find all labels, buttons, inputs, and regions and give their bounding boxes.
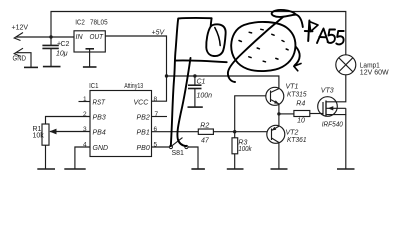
svg-text:+5V: +5V [152, 30, 166, 37]
svg-text:VT1: VT1 [286, 84, 299, 91]
svg-text:C1: C1 [197, 79, 206, 86]
svg-text:10k: 10k [33, 133, 45, 140]
svg-text:1: 1 [83, 96, 87, 103]
svg-text:5: 5 [154, 141, 158, 148]
svg-text:VT3: VT3 [321, 88, 334, 95]
svg-text:VT2: VT2 [286, 130, 299, 137]
svg-text:Lamp1: Lamp1 [360, 63, 380, 70]
svg-text:R4: R4 [296, 101, 305, 108]
svg-text:7: 7 [155, 111, 159, 118]
svg-text:OUT: OUT [90, 34, 104, 41]
svg-text:10μ: 10μ [56, 51, 68, 58]
svg-text:IRF540: IRF540 [322, 121, 343, 128]
svg-text:4: 4 [83, 141, 87, 148]
svg-text:PB2: PB2 [137, 114, 150, 121]
svg-text:PB0: PB0 [137, 145, 150, 152]
svg-text:10: 10 [297, 118, 305, 125]
svg-text:KT315: KT315 [287, 92, 307, 99]
svg-text:RST: RST [93, 99, 106, 106]
svg-text:+12V: +12V [12, 25, 29, 32]
svg-text:IN: IN [76, 34, 84, 41]
svg-text:Attiny13: Attiny13 [124, 83, 143, 90]
svg-text:KT361: KT361 [287, 137, 307, 144]
svg-text:IC1: IC1 [89, 83, 98, 90]
svg-text:IC2: IC2 [75, 20, 85, 27]
svg-text:PB3: PB3 [93, 114, 106, 121]
svg-text:3: 3 [83, 126, 87, 133]
svg-text:PB1: PB1 [137, 129, 150, 136]
svg-text:100n: 100n [197, 93, 213, 100]
svg-text:8: 8 [154, 96, 158, 103]
svg-text:R2: R2 [200, 122, 209, 129]
svg-text:78L05: 78L05 [90, 20, 108, 27]
svg-text:100k: 100k [238, 146, 252, 153]
svg-text:6: 6 [154, 126, 158, 133]
svg-text:C2: C2 [61, 41, 70, 48]
svg-text:PB4: PB4 [93, 129, 106, 136]
svg-text:GND: GND [93, 145, 109, 152]
svg-text:GND: GND [13, 56, 27, 63]
svg-text:12V 60W: 12V 60W [360, 70, 389, 77]
svg-text:VCC: VCC [134, 99, 150, 106]
svg-text:S81: S81 [172, 150, 185, 157]
svg-text:2: 2 [83, 111, 87, 118]
svg-text:47: 47 [201, 137, 210, 144]
